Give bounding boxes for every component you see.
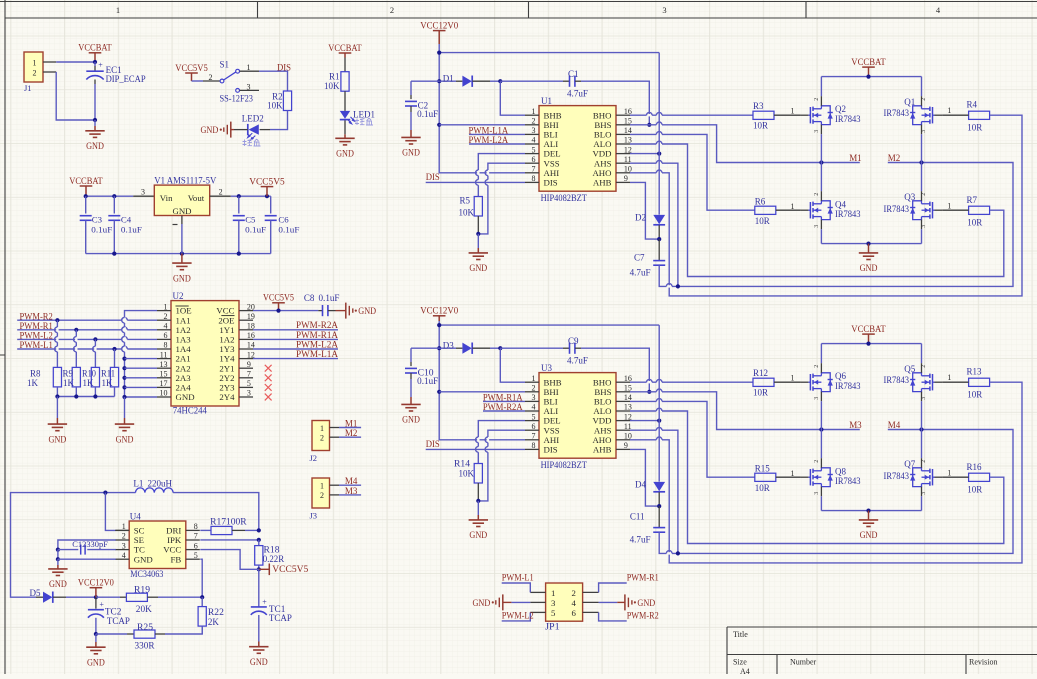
resistor R18 0.22R [255,545,285,566]
junction [476,499,480,503]
wire LED2 gnd lead [231,129,234,131]
svg-text:HIP4082BZT: HIP4082BZT [541,460,588,470]
svg-text:4: 4 [122,551,126,560]
svg-text:GND: GND [469,530,487,540]
svg-text:2: 2 [209,73,213,82]
transistor Q8 [801,458,861,496]
resistor R22 2K [198,597,224,634]
wire J1 pin2 to GND node [56,72,95,120]
svg-text:10K: 10K [459,207,475,217]
net label PWM-R2A [483,402,525,412]
capacitor C9 4.7uF [567,336,588,365]
svg-text:6: 6 [532,155,536,164]
svg-text:R25: R25 [137,622,154,632]
svg-text:2: 2 [122,532,126,541]
wire AHO long route [630,115,1022,296]
svg-text:10R: 10R [967,485,982,495]
svg-text:FB: FB [171,554,182,564]
svg-text:0.1uF: 0.1uF [417,109,438,119]
svg-text:M1: M1 [849,153,862,163]
wire lower sources to gnd rail [820,229,822,243]
junction [200,595,204,599]
svg-text:BHI: BHI [544,387,559,397]
svg-text:220uH: 220uH [148,478,173,488]
svg-text:1: 1 [532,107,536,116]
svg-text:GND: GND [134,554,153,564]
svg-text:PWM-L1A: PWM-L1A [296,349,339,359]
svg-text:2: 2 [814,460,820,463]
svg-text:GND: GND [49,434,67,444]
svg-text:4: 4 [164,322,168,331]
svg-text:8: 8 [164,341,168,350]
net label DIS [426,172,525,182]
svg-text:4: 4 [532,136,536,145]
net label PWM-L1 [502,573,534,593]
svg-text:6: 6 [194,541,198,550]
ground port at LED2 [201,122,231,138]
svg-text:LED1: LED1 [353,109,375,119]
svg-text:19: 19 [247,312,255,321]
svg-text:R16: R16 [967,462,983,472]
svg-text:R22: R22 [208,607,224,617]
svg-text:D3: D3 [443,341,454,351]
svg-text:13: 13 [160,360,168,369]
capacitor EC1 DIP_ECAP [86,61,145,84]
title block [727,627,1037,676]
junction [237,252,241,256]
junction [866,75,870,79]
svg-text:2: 2 [164,312,168,321]
svg-text:15: 15 [160,370,168,379]
svg-text:VSS: VSS [544,425,560,435]
junction [265,194,269,198]
svg-text:3: 3 [814,397,820,400]
svg-text:C7: C7 [634,252,645,262]
junction [919,160,923,164]
svg-text:GND: GND [358,306,376,316]
wire BHO to gate resistor [630,379,753,383]
svg-text:BLI: BLI [544,130,558,140]
capacitor C4 0.1uF [108,196,142,253]
wire to C1 left plate [500,80,563,82]
junction [657,504,661,508]
wire DEL to R5 [476,154,526,197]
svg-text:8: 8 [532,441,536,450]
wire AHB down [630,449,654,506]
wire Vout rail [210,188,271,197]
junction [437,51,441,55]
svg-text:3: 3 [122,541,126,550]
junction [112,252,116,256]
svg-text:Q4: Q4 [835,199,846,209]
net label PWM-L1 [17,340,157,350]
svg-text:ALO: ALO [593,406,611,416]
wire bootstrap cap to AHS/M rail [659,430,1013,555]
wire V1 gnd pin [181,224,183,254]
svg-text:1A4: 1A4 [176,344,192,354]
svg-text:Q1: Q1 [904,97,915,107]
svg-text:AHB: AHB [593,445,612,455]
wire D1 to C1 [490,80,500,82]
svg-text:L1: L1 [133,478,143,488]
wire J1 pin1 to VCCBAT node [56,61,95,63]
svg-text:C11: C11 [630,511,645,521]
transistor Q7 [884,458,943,496]
junction [819,160,823,164]
svg-text:D2: D2 [635,212,646,222]
svg-text:U3: U3 [541,363,552,373]
resistor R9 1K [63,367,81,387]
svg-text:9: 9 [624,441,628,450]
svg-text:5: 5 [194,551,198,560]
op-amp U3 HIP4082BZT [525,363,632,470]
svg-text:2: 2 [921,193,927,196]
svg-text:10K: 10K [267,101,283,111]
ground port JP1 left [473,594,531,610]
wire bridge gnd rail [821,243,921,245]
svg-text:LED2: LED2 [242,114,264,124]
svg-text:R13: R13 [967,367,983,377]
svg-text:2: 2 [572,588,576,598]
transistor Q4 [801,191,861,229]
svg-text:C1: C1 [568,69,579,79]
svg-text:5: 5 [551,608,556,618]
svg-text:M2: M2 [888,153,901,163]
svg-text:0.1uF: 0.1uF [91,224,112,234]
svg-text:0.1uF: 0.1uF [245,224,266,234]
wire AHS down [630,427,678,553]
resistor R8 1K [27,367,62,388]
junction [819,427,823,431]
svg-text:2OE: 2OE [218,315,234,325]
wire VCC5V5 to S1 pin2 [192,80,204,82]
junction [676,284,680,288]
svg-text:2: 2 [390,5,394,15]
svg-text:Size: Size [733,658,747,667]
diode D4 [635,479,665,491]
wire VCC pin20 to C8 [253,310,318,312]
svg-text:JP1: JP1 [545,622,560,632]
svg-text:2Y4: 2Y4 [219,392,235,402]
svg-text:Q7: Q7 [904,459,915,469]
svg-text:PWM-L2: PWM-L2 [502,611,534,621]
resistor R14 10K [454,459,482,484]
svg-text:IR7843: IR7843 [884,471,910,481]
power port VCCBAT [851,58,886,77]
wire VDD [630,420,659,422]
resistor R5 10K [459,196,483,218]
svg-text:C4: C4 [121,215,132,225]
junction [498,79,502,83]
net label M3 [339,486,361,496]
svg-text:D1: D1 [443,74,454,84]
power port VCCBAT [78,44,112,62]
junction [657,419,661,423]
power port VCC12V0 [420,307,458,321]
svg-text:R15: R15 [755,464,771,474]
svg-text:10R: 10R [967,218,982,228]
wire big loop left [11,493,136,598]
wire 1OE bus [122,311,157,397]
capacitor C7 4.7uF [630,239,666,277]
svg-text:4: 4 [532,403,536,412]
ground [401,397,420,425]
resistor R25 330R [134,622,202,651]
ground [85,120,104,151]
wire R2 to LED2 [270,111,288,130]
net label DIS [426,439,525,449]
svg-text:2: 2 [320,434,324,443]
svg-text:GND: GND [86,141,104,151]
op-amp U2 74HC244 [157,291,255,415]
no-connect marks on 2Y outputs [265,365,272,401]
svg-text:A4: A4 [740,667,750,674]
svg-text:GND: GND [173,273,191,283]
capacitor TC1 TCAP [251,569,292,641]
svg-text:1A2: 1A2 [219,335,234,345]
diode D3 [443,341,472,354]
svg-text:C12330pF: C12330pF [72,539,108,549]
wire VSS down lower [478,430,525,501]
svg-text:8: 8 [194,522,198,531]
wire bridge gnd rail [821,510,921,512]
svg-text:M3: M3 [345,486,358,496]
wire to C9 left plate [500,347,563,349]
junction [112,347,116,351]
transistor Q5 [884,363,943,401]
svg-text:J1: J1 [24,83,32,93]
wire C9 right plate to BHS [575,347,581,349]
svg-text:DIS: DIS [544,445,558,455]
net label PWM-R2A [253,320,338,330]
transistor Q2 [801,96,861,134]
svg-text:2A1: 2A1 [176,354,191,364]
svg-text:20K: 20K [136,604,153,614]
svg-text:1K: 1K [83,378,95,388]
inductor L1 220uH [133,478,173,492]
svg-text:HIP4082BZT: HIP4082BZT [541,193,588,203]
svg-text:Number: Number [790,658,817,667]
wire C10 to D3 anode [411,347,439,349]
svg-text:2: 2 [814,365,820,368]
capacitor C3 0.1uF [80,196,113,253]
wire GND pin4 [58,558,116,560]
svg-text:2: 2 [219,188,223,197]
resistor R11 1K [101,367,119,387]
transistor Q6 [801,363,861,401]
svg-text:2: 2 [814,193,820,196]
svg-text:17: 17 [160,379,168,388]
svg-text:4.7uF: 4.7uF [630,534,651,544]
svg-text:9: 9 [247,360,251,369]
svg-text:Vout: Vout [188,193,205,203]
wire IPK pin7 [200,539,258,541]
wire bridge top rail [821,76,921,78]
junction [93,394,97,398]
svg-text:7: 7 [247,370,251,379]
lead LED2 cathode [234,129,248,131]
svg-text:MC34063: MC34063 [130,569,164,579]
svg-text:GND: GND [469,263,487,273]
wire AHO long route [630,382,1022,563]
svg-text:C6: C6 [278,215,289,225]
wire DRI node down [258,540,260,546]
svg-text:2Y1: 2Y1 [219,363,234,373]
svg-text:2K: 2K [208,617,220,627]
net labels M rail [849,420,900,430]
svg-text:AHO: AHO [592,168,611,178]
lead D1 cathode [472,80,490,82]
svg-text:BHI: BHI [544,120,559,130]
net label PWM-L2A [253,339,339,349]
svg-text:DRI: DRI [166,526,181,536]
svg-text:IR7843: IR7843 [884,204,910,214]
svg-text:AHB: AHB [593,178,612,188]
svg-text:330R: 330R [135,641,155,651]
wire L1 to DRI node [173,493,259,531]
svg-text:0.1uF: 0.1uF [278,224,299,234]
svg-text:7: 7 [194,532,198,541]
svg-text:GND: GND [176,392,195,402]
svg-text:AHO: AHO [592,435,611,445]
connector J1 [24,52,56,93]
capacitor C12 330pF [58,539,116,554]
svg-text:11: 11 [160,350,168,359]
wire ALO long route [630,141,1004,276]
svg-text:1: 1 [947,373,951,382]
svg-text:2Y3: 2Y3 [219,383,235,393]
svg-text:3: 3 [921,397,927,400]
connector JP1 [530,583,598,632]
svg-text:4: 4 [572,598,577,608]
svg-text:PWM-R1A: PWM-R1A [296,330,338,340]
svg-text:GND: GND [116,434,134,444]
svg-text:SS-12F23: SS-12F23 [220,94,254,104]
junction [866,242,870,246]
wire node to R19 [96,596,120,598]
lead LED1 to ground [344,120,346,134]
svg-text:3: 3 [921,492,927,495]
svg-text:2A4: 2A4 [176,383,192,393]
svg-text:3: 3 [662,5,666,15]
svg-text:1: 1 [33,58,37,67]
svg-text:M1: M1 [345,418,358,428]
resistor R17 100R [200,517,258,535]
net label PWM-L2 [17,331,157,341]
svg-text:GND: GND [250,657,268,667]
junction [276,309,280,313]
lead R5 bottom [477,216,479,234]
svg-text:1: 1 [947,202,951,211]
svg-text:3: 3 [141,188,145,197]
svg-text:10K: 10K [459,468,475,478]
wire M rail to lower drains [820,430,822,459]
svg-text:0.22R: 0.22R [263,554,285,564]
junction [866,509,870,513]
svg-text:GND: GND [336,149,354,159]
net label M1 [339,418,361,428]
junction [84,194,88,198]
svg-text:1Y1: 1Y1 [219,325,234,335]
wire BLO to low-side gate resistor [630,132,755,211]
ground [172,254,191,284]
regulator V1 AMS1117-5V [154,176,216,225]
svg-text:C3: C3 [92,215,103,225]
svg-text:VDD: VDD [592,416,611,426]
junction [657,152,661,156]
svg-text:M4: M4 [888,420,901,430]
svg-text:R5: R5 [459,196,470,206]
svg-text:1: 1 [532,374,536,383]
net label PWM-R2 [599,611,659,621]
net label PWM-L1A [469,125,526,135]
net label PWM-R1A [253,330,338,340]
junction [122,385,126,389]
svg-text:1: 1 [791,374,795,383]
svg-text:1A2: 1A2 [176,325,191,335]
svg-text:R19: R19 [134,584,151,594]
wire FB pin5 down [200,559,202,597]
wire 2A rows to bus [125,359,158,388]
svg-text:ALI: ALI [544,139,559,149]
net label PWM-R1 [599,573,659,593]
svg-text:R10: R10 [82,368,96,378]
lead R18 bottom [258,565,260,569]
wire BHO to gate resistor [630,112,753,116]
svg-text:3: 3 [532,126,536,135]
wire ALO long route [630,408,1004,543]
junction [257,567,261,571]
resistor R4 10R [942,100,990,133]
svg-text:1: 1 [551,588,555,598]
svg-text:J3: J3 [310,511,318,521]
svg-text:AHS: AHS [594,425,612,435]
svg-text:R14: R14 [454,459,471,469]
wire VCC pin6 route [200,550,258,570]
junction [257,538,261,542]
svg-text:1Y3: 1Y3 [219,344,235,354]
svg-text:6: 6 [532,422,536,431]
svg-text:10R: 10R [967,389,982,399]
junction [257,528,261,532]
wire BHI pin2 [439,124,525,126]
junction [437,79,441,83]
wire sources to M rail [820,134,822,162]
svg-text:8: 8 [532,174,536,183]
lead diode cathode [658,225,660,239]
wire BHB pin1 [500,81,525,115]
wire S1 pin1 to DIS / R2 [259,71,288,91]
net label PWM-R1A [483,392,525,402]
svg-text:S1: S1 [220,59,230,69]
svg-text:BHS: BHS [594,120,611,130]
junction [237,194,241,198]
diode D1 [443,74,472,87]
capacitor C8 0.1uF [304,293,340,316]
label red color LED1 [355,118,373,125]
junction [657,237,661,241]
junction [866,342,870,346]
svg-text:+: + [262,597,267,606]
svg-text:SE: SE [134,535,144,545]
transistor Q1 [884,96,943,134]
svg-text:3: 3 [814,225,820,228]
junction [498,346,502,350]
junction [74,328,78,332]
svg-text:1Y4: 1Y4 [219,354,235,364]
wire R8 top [55,320,59,367]
ground [469,501,488,540]
